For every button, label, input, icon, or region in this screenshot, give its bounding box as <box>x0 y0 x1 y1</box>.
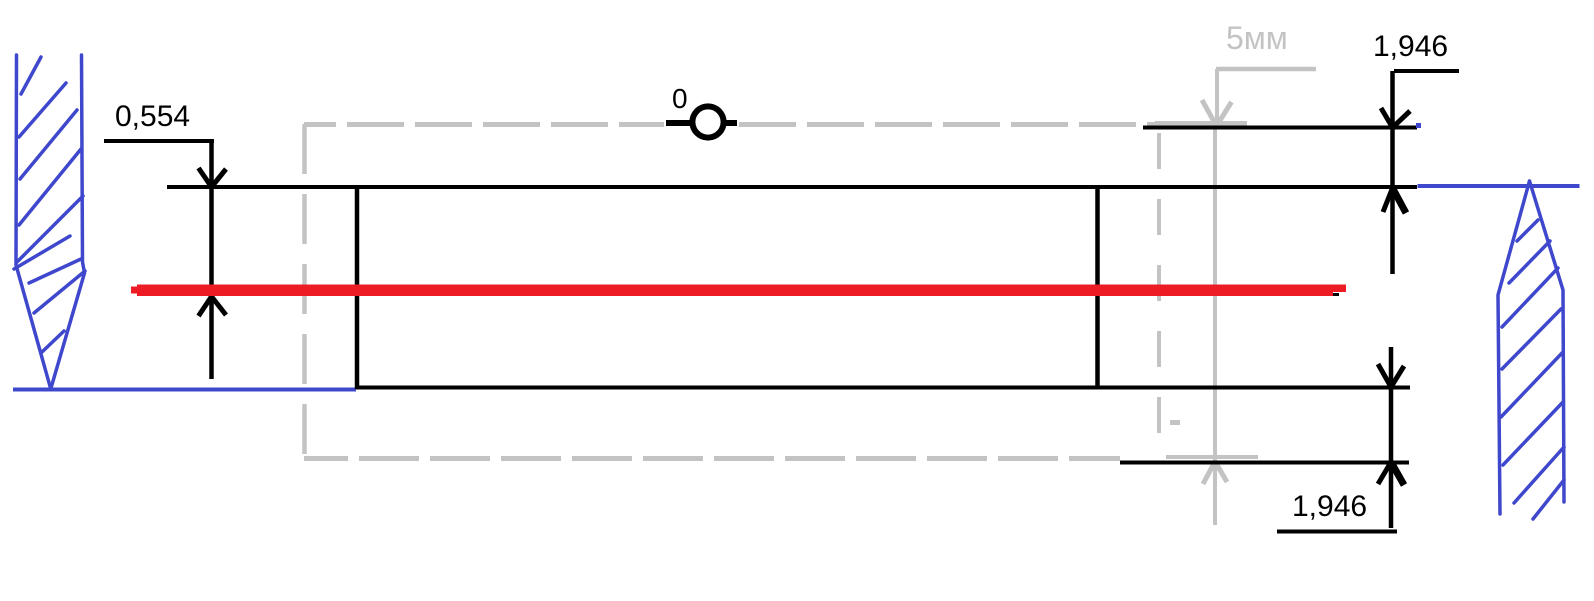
dimension 1,946 (bottom right) <box>1277 347 1404 532</box>
dashed blank outline bottom edge <box>304 456 1120 461</box>
dimension 0,554 (left) <box>104 141 226 379</box>
zero datum circle <box>666 106 737 137</box>
black speck under red right end <box>1333 293 1339 296</box>
dash speck near right edge <box>1170 420 1180 425</box>
svg-text:5мм: 5мм <box>1226 20 1288 56</box>
left cutting tool (blue hatched) <box>14 55 85 388</box>
dimension 1,946 (top right) <box>1381 71 1459 274</box>
red centerline <box>131 285 1346 297</box>
part top edge <box>167 185 1417 189</box>
gray extension line bottom (solid) <box>1166 455 1258 459</box>
part left edge <box>355 186 360 389</box>
baseline left (blue) <box>13 388 356 392</box>
blue speck at end of top reference line <box>1416 123 1421 128</box>
black reference line top right <box>1143 126 1417 130</box>
dashed blank outline (gray) top edge <box>304 124 1247 125</box>
svg-text:1,946: 1,946 <box>1292 490 1367 523</box>
part right edge <box>1095 186 1100 388</box>
right cutting tool (blue hatched) <box>1498 181 1564 519</box>
black reference line bottom right <box>1120 461 1409 465</box>
part bottom edge <box>356 386 1410 390</box>
dashed blank outline right edge <box>1157 133 1161 452</box>
part outline (black rectangle) <box>167 186 1417 389</box>
svg-text:0,554: 0,554 <box>115 100 190 133</box>
dashed blank outline left edge <box>302 124 307 458</box>
surface line right (blue) <box>1418 184 1580 188</box>
svg-text:1,946: 1,946 <box>1373 30 1448 63</box>
gray extension line top (solid) <box>1155 121 1247 126</box>
gray dimension line 5mm (vertical) <box>1202 69 1316 525</box>
svg-text:0: 0 <box>672 83 688 114</box>
